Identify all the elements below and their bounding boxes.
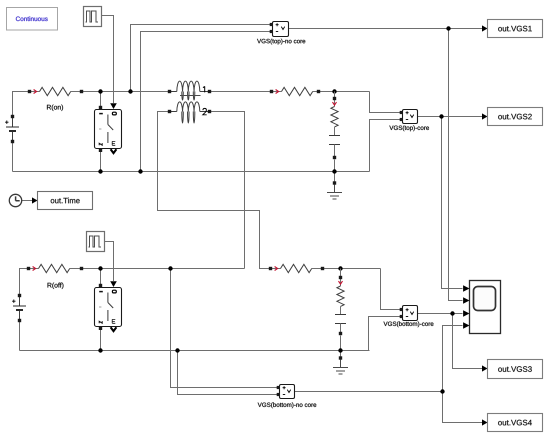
T1 winding1 right port: [208, 90, 211, 93]
wire R(on) to T1 winding1: [82, 91, 170, 93]
Q2 emitter port: [99, 327, 102, 330]
ground G1: [327, 185, 342, 200]
outport out.VGS4: [488, 414, 543, 432]
DC voltage source V2: [12, 294, 26, 322]
Q1 emitter port: [99, 149, 102, 152]
arrow into out.VGS4: [482, 419, 488, 425]
powergui Continuous: [7, 8, 58, 31]
voltage measurement VGS(top)-no core: [257, 22, 305, 45]
Q2 m output chevron: [111, 327, 117, 331]
wire VGS3 to out.VGS3: [453, 314, 483, 369]
arrow into out.VGS1: [482, 25, 488, 31]
wire V2- down: [19, 321, 21, 351]
Q2 collector port: [99, 284, 102, 287]
junction RC2 top: [338, 266, 342, 270]
wire T1-2b riser: [210, 112, 245, 269]
series RC snubber RC2: [335, 269, 346, 336]
Q1 m output chevron: [111, 149, 117, 153]
bottom main wire: [82, 268, 245, 270]
ground G2: [333, 360, 348, 375]
resistor R(on): [28, 87, 83, 111]
wire VGS2 to scope in1: [442, 117, 463, 289]
wire V1+ to R(on): [13, 92, 30, 117]
resistor R2b bottom: [269, 264, 324, 272]
wire T1-1b to R2a: [210, 91, 272, 93]
wire VM1 v to out.VGS1: [289, 28, 483, 30]
wire plus to VM4: [171, 269, 278, 388]
wire T1-2a loop to R2b: [158, 112, 271, 269]
pulse generator PG2: [87, 232, 105, 252]
wire PG1 to gate Q1: [102, 16, 114, 104]
outport out.VGS1: [488, 20, 543, 38]
wire R2b to VM3 corner: [323, 268, 381, 270]
wire minus to VM2: [370, 120, 401, 172]
junction RC1 top: [332, 89, 336, 93]
wire minus to VM3: [369, 317, 401, 351]
junction minus tap VM1: [138, 169, 142, 173]
IGBT Q1: [95, 110, 122, 149]
wire VM2 v to out.VGS2: [418, 116, 483, 118]
wire VGS4 to scope in4: [443, 326, 463, 392]
junction Q2 emitter: [98, 348, 102, 352]
wire plus to VM2: [370, 92, 401, 113]
ground G1 port: [333, 181, 336, 184]
DC voltage source V1: [5, 115, 19, 143]
node plus tap VM4: [168, 266, 172, 270]
junction VGS1 scope feed: [446, 26, 450, 30]
wire to Q2 collector: [100, 269, 102, 285]
wire plus to VM1: [131, 25, 271, 92]
transformer T1 core: [180, 95, 201, 97]
outport out.Time: [38, 192, 93, 210]
T1 terminal label 2: [203, 108, 207, 114]
wire Q2 emitter down: [100, 330, 102, 351]
pulse generator PG1: [84, 7, 102, 27]
voltage measurement VGS(bottom)-core: [384, 306, 434, 328]
wire clock to out.Time: [22, 200, 34, 202]
wire RC2 to ground node: [340, 336, 342, 359]
wire VGS1 to scope in2: [449, 29, 463, 301]
node collector Q1: [98, 89, 102, 93]
IGBT Q2: [95, 288, 122, 327]
resistor R(off): [27, 264, 83, 289]
series RC snubber RC1: [329, 92, 340, 160]
outport out.VGS3: [488, 360, 543, 379]
Q1 collector port: [99, 106, 102, 109]
wire V1- down: [12, 142, 14, 172]
wire VM4 v out: [295, 391, 443, 393]
outport out.VGS2: [488, 108, 543, 126]
junction VGS3: [450, 311, 454, 315]
wire plus to VM3: [381, 269, 401, 310]
junction RC1 ground node: [332, 169, 336, 173]
wire VGS4 to out.VGS4: [443, 392, 483, 423]
clock: [9, 194, 21, 206]
junction VGS2 scope feed: [439, 114, 443, 118]
wire RC1 to ground node: [334, 160, 336, 184]
arrow into out.VGS3: [482, 365, 488, 371]
wire to Q1 collector: [100, 92, 102, 107]
node plus tap VM1: [128, 89, 132, 93]
transformer T1 winding 1: [170, 81, 210, 100]
resistor R2a top: [270, 87, 320, 95]
junction VGS4: [440, 389, 444, 393]
scope: [470, 281, 501, 334]
wire PG2 to gate Q2: [105, 242, 114, 282]
junction minus tap VM4: [175, 348, 179, 352]
arrow into out.Time: [32, 197, 38, 203]
wire minus to VM1: [141, 32, 271, 172]
node collector Q2: [98, 266, 102, 270]
transformer T1 winding 2: [170, 102, 210, 123]
gate arrow Q1: [110, 103, 117, 109]
voltage measurement VGS(bottom)-no core: [258, 385, 317, 409]
wire V2+ to R(off): [20, 269, 29, 296]
emitter rail top circuit: [13, 171, 370, 173]
wire VM3 v to scope in3: [418, 313, 463, 315]
T1 winding2 right port: [208, 110, 211, 113]
arrow into out.VGS2: [482, 113, 488, 119]
junction RC2 ground node: [338, 348, 342, 352]
ground G2 port: [339, 356, 342, 359]
wire minus to VM4: [178, 351, 278, 395]
T1 terminal label 1: [203, 86, 205, 92]
T1 winding1 left port: [168, 90, 171, 93]
wire Q1 emitter down: [100, 152, 102, 172]
wire R2a to VM2 corner: [319, 91, 370, 93]
gate arrow Q2: [110, 281, 117, 287]
emitter rail bottom circuit: [20, 350, 370, 352]
scope input arrows: [463, 285, 469, 291]
junction Q1 emitter: [98, 169, 102, 173]
voltage measurement VGS(top)-core: [389, 110, 429, 132]
T1 winding2 left port: [168, 110, 171, 113]
